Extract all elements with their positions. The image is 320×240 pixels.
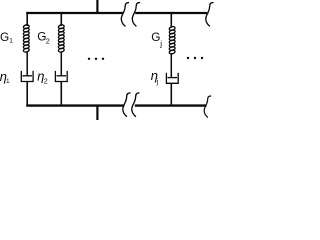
bottom rail left segment (26, 104, 124, 106)
spring G2 (58, 24, 65, 52)
top rail right segment (135, 12, 207, 14)
ellipsis dots between branch2 and branchJ (88, 58, 90, 60)
wire branch1 top (26, 12, 28, 26)
spring Gj (169, 26, 176, 54)
wire branch2 middle (piston rod) (60, 52, 62, 76)
wire branchJ bottom (170, 83, 172, 106)
break mark top-left pair 1 (121, 3, 128, 26)
svg-text:j: j (159, 40, 162, 49)
wire branch1 bottom (26, 82, 28, 107)
dashpot eta1 (21, 71, 33, 82)
svg-text:2: 2 (46, 37, 50, 46)
top stem (upper terminal wire) (96, 0, 98, 13)
wire branchJ middle (piston rod) (170, 53, 172, 77)
wire branch2 top (60, 12, 62, 26)
svg-text:1: 1 (9, 38, 13, 45)
dashpot etaJ (166, 73, 178, 84)
spring G1 (23, 24, 30, 52)
bottom rail right segment (135, 104, 207, 106)
dashpot eta2 (55, 71, 67, 82)
wire branch2 bottom (60, 82, 62, 107)
break mark top-left pair 2 (132, 3, 139, 26)
top rail left segment (26, 12, 123, 14)
wire branchJ top (170, 12, 172, 28)
break mark bottom-left pair 2 (132, 93, 139, 116)
svg-text:j: j (156, 79, 159, 86)
break mark bottom right edge (204, 96, 210, 117)
bottom stem (lower terminal wire) (96, 106, 98, 120)
svg-text:G: G (151, 30, 160, 44)
svg-text:G: G (0, 30, 9, 44)
ellipsis dots right of branchJ (187, 57, 189, 59)
wire branch1 middle (piston rod) (26, 52, 28, 76)
svg-text:1: 1 (6, 78, 10, 85)
break mark bottom-left pair 1 (123, 93, 130, 116)
svg-text:2: 2 (44, 77, 48, 86)
break mark top right edge (206, 3, 213, 26)
